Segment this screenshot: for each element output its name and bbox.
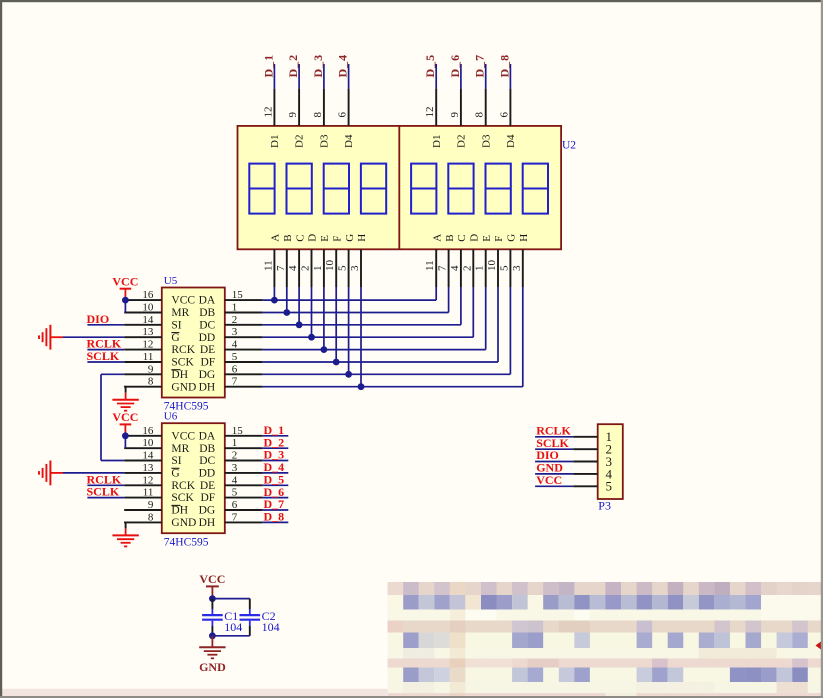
svg-text:DH: DH xyxy=(171,505,188,517)
wire net GND (P3) xyxy=(535,473,573,475)
censored title block mosaic (decorative) xyxy=(388,582,823,595)
wire display2 segment C vertical xyxy=(460,287,462,325)
svg-text:G: G xyxy=(506,234,518,242)
svg-text:DC: DC xyxy=(199,319,215,331)
svg-text:D_5: D_5 xyxy=(423,54,437,78)
svg-text:SCLK: SCLK xyxy=(87,485,120,499)
pin 1 (DB) of U5 xyxy=(225,312,263,314)
display digit glyph left 3 xyxy=(324,164,349,214)
svg-text:VCC: VCC xyxy=(199,572,225,586)
junction VCC / C1 / C2 xyxy=(209,595,216,602)
pin 4 of P3 xyxy=(573,473,598,475)
pin 13 (G) of U5 xyxy=(124,336,162,338)
wire C2 bottom lead xyxy=(249,621,251,626)
wire net DIO xyxy=(87,324,124,326)
pin 8 (GND) of U5 xyxy=(124,386,162,388)
wire display1 segment A vertical xyxy=(273,287,275,300)
pin 4 (DE) of U6 xyxy=(225,484,263,486)
pin 6 (D4) top of display 1 xyxy=(348,89,350,126)
wire display2 segment E vertical xyxy=(485,287,487,350)
junction VCC pin16 xyxy=(122,432,129,439)
display digit glyph right 1 xyxy=(411,164,436,214)
svg-text:D_8: D_8 xyxy=(264,510,285,524)
svg-text:D3: D3 xyxy=(319,134,331,148)
wire net SCLK (U5) xyxy=(87,361,124,363)
svg-text:4: 4 xyxy=(232,339,238,351)
svg-text:C: C xyxy=(294,234,306,241)
pin 5 (DF) of U5 xyxy=(225,361,263,363)
svg-text:1: 1 xyxy=(232,437,238,449)
svg-text:D1: D1 xyxy=(431,135,443,148)
junction GND / C1 / C2 xyxy=(209,632,216,639)
red cursor mark right edge xyxy=(816,640,823,651)
wire net D_4 (U6 output) xyxy=(262,472,288,474)
svg-text:U2: U2 xyxy=(562,140,576,152)
svg-text:16: 16 xyxy=(142,425,154,437)
capacitor C2 xyxy=(240,614,261,616)
svg-text:B: B xyxy=(444,234,456,241)
pin 1 (segment E) bottom of display 2 xyxy=(485,249,487,287)
ground symbol (earth) xyxy=(112,399,138,401)
wire net DIO (P3) xyxy=(535,461,573,463)
wire net D_7 xyxy=(485,64,487,89)
svg-text:6: 6 xyxy=(337,112,349,118)
svg-text:SCK: SCK xyxy=(171,357,194,369)
wire net VCC (P3) xyxy=(535,485,573,487)
svg-text:DD: DD xyxy=(199,468,216,480)
svg-text:D2: D2 xyxy=(456,135,468,148)
svg-text:9: 9 xyxy=(287,112,299,118)
wire net D_2 xyxy=(298,64,300,89)
junction display1 segment D xyxy=(308,334,315,341)
display digit glyph right 2 xyxy=(448,164,473,214)
wire segment U5 DB horizontal run xyxy=(262,312,448,314)
svg-text:6: 6 xyxy=(232,363,238,375)
wire display1 segment E vertical xyxy=(323,287,325,350)
pin 8 (D3) top of display 1 xyxy=(323,89,325,126)
svg-text:1: 1 xyxy=(474,266,486,272)
wire net RCLK (U5) xyxy=(87,349,124,351)
display digit glyph right 4 xyxy=(523,164,548,214)
pin 11 (segment A) bottom of display 1 xyxy=(273,249,275,287)
svg-text:104: 104 xyxy=(224,620,242,634)
wire display2 segment D vertical xyxy=(472,287,474,337)
wire segment U5 DH horizontal run xyxy=(262,386,522,388)
svg-text:10: 10 xyxy=(486,260,498,272)
wire display1 segment C vertical xyxy=(298,287,300,325)
pin 16 (VCC) of U6 xyxy=(124,435,162,437)
svg-text:10: 10 xyxy=(142,302,154,314)
svg-text:SCK: SCK xyxy=(171,492,194,504)
svg-text:1: 1 xyxy=(312,266,324,272)
svg-text:16: 16 xyxy=(142,289,154,301)
pin 2 (DC) of U5 xyxy=(225,324,263,326)
pin 4 (DE) of U5 xyxy=(225,349,263,351)
svg-text:MR: MR xyxy=(171,443,189,455)
pin 12 (RCK) of U5 xyxy=(124,349,162,351)
svg-text:D_7: D_7 xyxy=(473,54,487,78)
pin 2 of P3 xyxy=(573,448,598,450)
pin 12 (D1) top of display 1 xyxy=(273,89,275,126)
svg-text:7: 7 xyxy=(232,511,238,523)
pin 7 (segment B) bottom of display 2 xyxy=(448,249,450,287)
wire net D_3 xyxy=(323,64,325,89)
pin 7 (DH) of U6 xyxy=(225,521,263,523)
wire display2 segment H vertical xyxy=(522,287,524,387)
wire display1 segment G vertical xyxy=(348,287,350,374)
svg-text:D: D xyxy=(307,234,319,242)
svg-text:2: 2 xyxy=(232,450,238,462)
pin 10 (segment F) bottom of display 1 xyxy=(335,249,337,287)
svg-text:DH: DH xyxy=(199,381,216,393)
junction display1 segment F xyxy=(333,359,340,366)
wire segment U5 DF horizontal run xyxy=(262,361,498,363)
pin 12 (D1) top of display 2 xyxy=(435,89,437,126)
svg-text:9: 9 xyxy=(148,363,154,375)
svg-text:3: 3 xyxy=(511,265,523,271)
svg-text:6: 6 xyxy=(498,112,510,118)
pin 9 (D2) top of display 1 xyxy=(298,89,300,126)
wire display1 segment D vertical xyxy=(311,287,313,337)
wire display1 segment H vertical xyxy=(360,287,362,387)
svg-text:15: 15 xyxy=(232,289,244,301)
display digit glyph left 2 xyxy=(287,164,312,214)
wire net D_1 xyxy=(273,64,275,89)
svg-text:5: 5 xyxy=(498,265,510,271)
wire display1 segment F vertical xyxy=(335,287,337,362)
pin 6 (DG) of U6 xyxy=(225,509,263,511)
svg-text:RCK: RCK xyxy=(171,480,195,492)
pin 15 (DA) of U5 xyxy=(225,299,263,301)
svg-text:A: A xyxy=(431,234,443,242)
pin 7 (DH) of U5 xyxy=(225,386,263,388)
pin 8 (D3) top of display 2 xyxy=(485,89,487,126)
pin 1 (segment E) bottom of display 1 xyxy=(323,249,325,287)
svg-text:5: 5 xyxy=(606,479,613,494)
pin 2 (segment D) bottom of display 2 xyxy=(472,249,474,287)
svg-text:2: 2 xyxy=(300,266,312,272)
svg-text:D_1: D_1 xyxy=(261,54,275,78)
pin 11 (SCK) of U6 xyxy=(124,497,162,499)
svg-text:DB: DB xyxy=(199,307,215,319)
junction display1 segment E xyxy=(321,346,328,353)
op-amp/IC U6 74HC595 body xyxy=(162,423,225,533)
wire net D_7 (U6 output) xyxy=(262,509,288,511)
wire net D_8 xyxy=(509,64,511,89)
svg-text:8: 8 xyxy=(148,511,154,523)
wire net D_2 (U6 output) xyxy=(262,447,288,449)
svg-text:SCLK: SCLK xyxy=(87,349,120,363)
pin 14 (SI) of U5 xyxy=(124,324,162,326)
svg-text:104: 104 xyxy=(262,620,280,634)
svg-text:A: A xyxy=(270,234,282,242)
wire net SCLK (U6) xyxy=(87,497,124,499)
svg-text:1: 1 xyxy=(232,302,238,314)
svg-text:VCC: VCC xyxy=(112,410,138,424)
svg-text:7: 7 xyxy=(437,265,449,271)
svg-text:D: D xyxy=(469,234,481,242)
svg-text:H: H xyxy=(356,234,368,242)
wire net D_6 (U6 output) xyxy=(262,497,288,499)
svg-text:VCC: VCC xyxy=(112,275,138,289)
svg-text:F: F xyxy=(493,236,505,242)
svg-text:DF: DF xyxy=(200,492,215,504)
svg-text:DD: DD xyxy=(199,332,216,344)
wire display2 segment F vertical xyxy=(497,287,499,362)
pin 16 (VCC) of U5 xyxy=(124,299,162,301)
pin 5 (segment G) bottom of display 1 xyxy=(348,249,350,287)
svg-text:D_2: D_2 xyxy=(286,54,300,78)
page frame (decorative) xyxy=(0,689,388,696)
svg-text:4: 4 xyxy=(232,474,238,486)
pin 3 (segment H) bottom of display 2 xyxy=(522,249,524,287)
svg-text:DE: DE xyxy=(200,344,215,356)
wire ground to pin 13 xyxy=(63,336,124,338)
svg-text:12: 12 xyxy=(142,339,153,351)
pin 5 (DF) of U6 xyxy=(225,497,263,499)
wire segment U5 DA horizontal run xyxy=(262,299,436,301)
ground port GND (capacitors) xyxy=(211,636,213,648)
wire C1 bottom lead xyxy=(211,621,213,626)
wire net D_3 (U6 output) xyxy=(262,460,288,462)
pin 9 (DH) of U6 xyxy=(124,509,162,511)
pin 10 (MR) of U6 xyxy=(124,447,162,449)
svg-text:5: 5 xyxy=(337,265,349,271)
wire net D_1 (U6 output) xyxy=(262,435,288,437)
svg-text:DF: DF xyxy=(200,357,215,369)
pin 6 (DG) of U5 xyxy=(225,373,263,375)
svg-text:9: 9 xyxy=(148,499,154,511)
pin 9 (DH) of U5 xyxy=(124,373,162,375)
pin 12 (RCK) of U6 xyxy=(124,484,162,486)
svg-text:14: 14 xyxy=(142,314,154,326)
svg-text:3: 3 xyxy=(232,326,238,338)
wire segment U5 DG horizontal run xyxy=(262,373,510,375)
svg-text:7: 7 xyxy=(232,376,238,388)
svg-text:F: F xyxy=(331,236,343,242)
wire net RCLK (P3) xyxy=(535,436,573,438)
svg-text:GND: GND xyxy=(199,660,226,674)
svg-text:E: E xyxy=(319,235,331,242)
wire net D_6 xyxy=(460,64,462,89)
svg-text:D4: D4 xyxy=(343,134,355,148)
svg-text:U6: U6 xyxy=(164,411,178,423)
svg-text:8: 8 xyxy=(148,376,154,388)
svg-text:5: 5 xyxy=(232,487,238,499)
pin 3 (DD) of U6 xyxy=(225,472,263,474)
display module U2 body xyxy=(238,126,562,249)
wire net D_4 xyxy=(348,64,350,89)
display digit glyph left 4 xyxy=(361,164,386,214)
svg-text:D_6: D_6 xyxy=(448,54,462,78)
op-amp/IC U5 74HC595 body xyxy=(162,288,225,398)
wire net D_5 xyxy=(435,64,437,89)
svg-text:DH: DH xyxy=(199,517,216,529)
pin 13 (G) of U6 xyxy=(124,472,162,474)
svg-text:DH: DH xyxy=(171,369,188,381)
pin 4 (segment C) bottom of display 2 xyxy=(460,249,462,287)
pin 9 (D2) top of display 2 xyxy=(460,89,462,126)
svg-text:G: G xyxy=(171,332,179,344)
svg-text:DE: DE xyxy=(200,480,215,492)
junction display1 segment B xyxy=(283,309,290,316)
wire ground to pin 13 xyxy=(63,472,124,474)
svg-text:DC: DC xyxy=(199,455,215,467)
ground symbol (earth) xyxy=(112,534,138,536)
pin 1 (DB) of U6 xyxy=(225,447,263,449)
svg-text:DB: DB xyxy=(199,443,215,455)
svg-text:7: 7 xyxy=(275,265,287,271)
wire pin8 GND down xyxy=(124,521,125,523)
wire display2 segment B vertical xyxy=(448,287,450,313)
wire U5 pin9 DH to U6 pin14 SI xyxy=(101,373,124,375)
svg-text:D_8: D_8 xyxy=(497,54,511,78)
svg-text:D_3: D_3 xyxy=(311,54,325,78)
junction display1 segment H xyxy=(358,383,365,390)
display digit glyph right 3 xyxy=(486,164,511,214)
svg-text:B: B xyxy=(282,234,294,241)
pin 3 (segment H) bottom of display 1 xyxy=(360,249,362,287)
svg-text:8: 8 xyxy=(474,112,486,118)
svg-text:12: 12 xyxy=(262,107,274,118)
svg-text:3: 3 xyxy=(232,462,238,474)
svg-text:13: 13 xyxy=(142,326,154,338)
svg-text:12: 12 xyxy=(142,474,153,486)
svg-text:DA: DA xyxy=(199,430,216,442)
svg-text:11: 11 xyxy=(262,260,274,271)
svg-text:GND: GND xyxy=(171,381,196,393)
svg-text:11: 11 xyxy=(143,487,154,499)
svg-text:G: G xyxy=(171,468,179,480)
svg-text:4: 4 xyxy=(449,265,461,271)
wire segment U5 DE horizontal run xyxy=(262,349,485,351)
wire VCC to pin 10 xyxy=(124,300,126,312)
svg-text:10: 10 xyxy=(324,260,336,272)
wire net SCLK (P3) xyxy=(535,448,573,450)
svg-text:E: E xyxy=(481,235,493,242)
svg-text:D4: D4 xyxy=(505,134,517,148)
svg-text:SI: SI xyxy=(171,455,181,467)
pin 3 of P3 xyxy=(573,461,598,463)
pin 10 (segment F) bottom of display 2 xyxy=(497,249,499,287)
svg-text:H: H xyxy=(518,234,530,242)
junction display1 segment A xyxy=(271,297,278,304)
svg-text:2: 2 xyxy=(232,314,238,326)
svg-text:SI: SI xyxy=(171,319,181,331)
svg-text:DA: DA xyxy=(199,295,216,307)
wire C2 top lead xyxy=(249,599,251,609)
wire C1 top lead xyxy=(211,599,213,609)
svg-text:11: 11 xyxy=(143,351,154,363)
pin 5 of P3 xyxy=(573,485,598,487)
svg-text:D_4: D_4 xyxy=(336,54,350,78)
svg-text:VCC: VCC xyxy=(171,430,195,442)
svg-text:13: 13 xyxy=(142,462,154,474)
svg-text:G: G xyxy=(344,234,356,242)
svg-text:VCC: VCC xyxy=(536,473,562,487)
svg-text:3: 3 xyxy=(349,265,361,271)
svg-text:74HC595: 74HC595 xyxy=(164,536,209,548)
pin 1 of P3 xyxy=(573,436,598,438)
svg-text:RCK: RCK xyxy=(171,344,195,356)
svg-text:P3: P3 xyxy=(598,498,611,512)
svg-text:9: 9 xyxy=(449,112,461,118)
wire pin8 GND down xyxy=(124,386,125,388)
pin 14 (SI) of U6 xyxy=(124,460,162,462)
wire display2 segment A vertical xyxy=(435,287,437,300)
wire display2 segment G vertical xyxy=(509,287,511,374)
svg-text:5: 5 xyxy=(232,351,238,363)
pin 15 (DA) of U6 xyxy=(225,435,263,437)
display digit glyph left 1 xyxy=(249,164,274,214)
svg-text:8: 8 xyxy=(312,112,324,118)
ground port (signal ground, rotated) xyxy=(49,461,51,486)
pin 11 (segment A) bottom of display 2 xyxy=(435,249,437,287)
wire top rail xyxy=(212,598,249,600)
pin 4 (segment C) bottom of display 1 xyxy=(298,249,300,287)
pin 7 (segment B) bottom of display 1 xyxy=(286,249,288,287)
svg-text:GND: GND xyxy=(171,517,196,529)
svg-text:DG: DG xyxy=(199,369,216,381)
pin 2 (DC) of U6 xyxy=(225,460,263,462)
capacitor C1 xyxy=(202,614,223,616)
svg-text:U5: U5 xyxy=(164,275,178,287)
svg-text:C: C xyxy=(456,234,468,241)
svg-text:11: 11 xyxy=(424,260,436,271)
svg-text:12: 12 xyxy=(424,107,436,118)
pin 3 (DD) of U5 xyxy=(225,336,263,338)
wire net D_8 (U6 output) xyxy=(262,521,288,523)
svg-text:D3: D3 xyxy=(480,134,492,148)
svg-text:6: 6 xyxy=(232,499,238,511)
svg-text:VCC: VCC xyxy=(171,295,195,307)
junction VCC pin16 xyxy=(122,297,129,304)
junction display1 segment G xyxy=(345,371,352,378)
svg-text:2: 2 xyxy=(461,266,473,272)
connector P3 body xyxy=(598,424,623,499)
pin 5 (segment G) bottom of display 2 xyxy=(509,249,511,287)
wire display1 segment B vertical xyxy=(286,287,288,313)
svg-text:DIO: DIO xyxy=(87,312,110,326)
wire bottom rail xyxy=(212,635,249,637)
svg-text:MR: MR xyxy=(171,307,189,319)
pin 6 (D4) top of display 2 xyxy=(509,89,511,126)
wire net D_5 (U6 output) xyxy=(262,484,288,486)
svg-text:4: 4 xyxy=(287,265,299,271)
svg-text:15: 15 xyxy=(232,425,244,437)
wire segment U5 DC horizontal run xyxy=(262,324,461,326)
svg-text:DG: DG xyxy=(199,505,216,517)
svg-text:D1: D1 xyxy=(269,135,281,148)
pin 11 (SCK) of U5 xyxy=(124,361,162,363)
svg-text:14: 14 xyxy=(142,450,154,462)
wire VCC to pin 10 xyxy=(124,436,126,448)
ground port (signal ground, rotated) xyxy=(49,325,51,350)
pin 10 (MR) of U5 xyxy=(124,312,162,314)
pin 8 (GND) of U6 xyxy=(124,521,162,523)
svg-text:10: 10 xyxy=(142,437,154,449)
junction display1 segment C xyxy=(296,321,303,328)
wire segment U5 DD horizontal run xyxy=(262,336,473,338)
pin 2 (segment D) bottom of display 1 xyxy=(311,249,313,287)
wire net RCLK (U6) xyxy=(87,484,124,486)
svg-text:D2: D2 xyxy=(294,135,306,148)
